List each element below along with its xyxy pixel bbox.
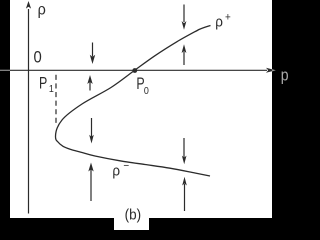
horizontal axis arrowhead (266, 68, 276, 73)
svg-text:−: − (123, 161, 129, 173)
arrow A1 shaft (down) (92, 43, 94, 57)
dashed line at P1 (55, 75, 57, 124)
arrow A6 shaft (up) (183, 52, 185, 66)
gray part of h-axis arrowhead in right margin (272, 69, 276, 71)
svg-text:0: 0 (34, 49, 43, 67)
arrow A3 shaft (down) (91, 118, 93, 137)
A5 head (down) (182, 21, 187, 30)
horizontal p axis (10, 69, 267, 71)
arrow A2 shaft (up) (89, 82, 91, 91)
A2 head (up) (87, 75, 92, 84)
P0 dot (132, 68, 137, 73)
A4 head (up) (88, 163, 93, 172)
svg-text:0: 0 (144, 86, 149, 98)
svg-text:ρ: ρ (38, 1, 47, 19)
arrow A4 shaft (up) (90, 170, 92, 202)
vertical axis arrowhead (26, 1, 31, 9)
svg-text:+: + (225, 12, 231, 24)
black margin left (0, 0, 10, 230)
vertical rho axis (28, 9, 30, 214)
A1 head (down) (90, 55, 95, 64)
arrow A5 shaft (down) (183, 5, 185, 23)
black margin right (272, 0, 291, 230)
svg-text:ρ: ρ (215, 14, 223, 31)
A7 head (down) (182, 156, 187, 165)
white plot background (10, 0, 272, 218)
A6 head (up) (182, 44, 187, 53)
arrow A7 shaft (down) (183, 138, 185, 158)
A8 head (up) (182, 177, 187, 186)
black margin bottom (0, 218, 291, 230)
svg-text:p: p (281, 67, 289, 85)
h axis gray segment in left margin (0, 69, 10, 71)
A3 head (down) (89, 135, 94, 144)
svg-text:1: 1 (49, 83, 54, 95)
svg-text:ρ: ρ (112, 163, 120, 180)
curve rho+ / rho- (56, 26, 211, 177)
svg-text:(b): (b) (125, 207, 141, 224)
white notch around (b) caption (114, 218, 149, 230)
svg-text:P: P (39, 75, 47, 93)
arrow A8 shaft (up) (184, 184, 186, 211)
